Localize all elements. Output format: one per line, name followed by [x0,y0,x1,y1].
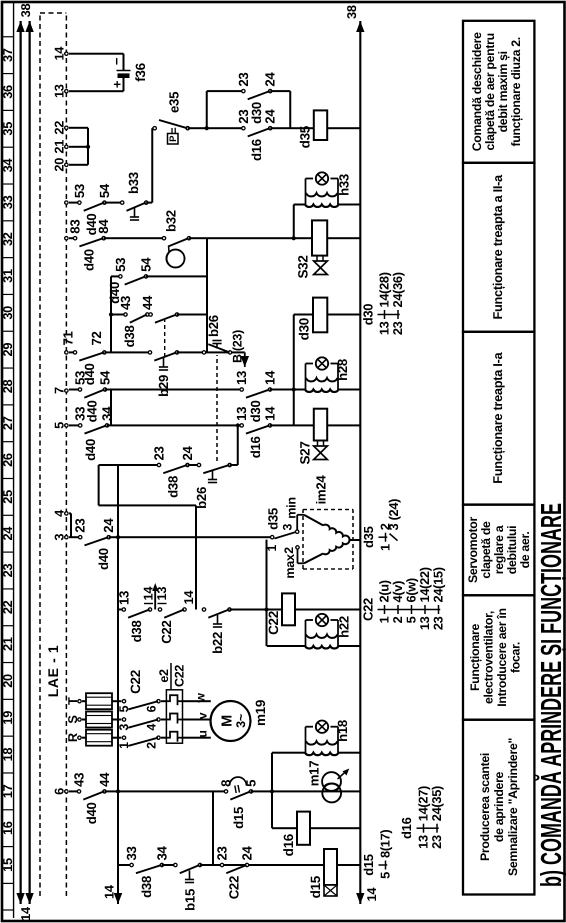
svg-text:43: 43 [72,773,87,787]
svg-text:21: 21 [52,140,67,154]
svg-text:h33: h33 [337,174,352,196]
svg-text:b15: b15 [183,889,198,911]
svg-text:14: 14 [102,884,117,899]
svg-text:14: 14 [263,370,278,385]
svg-text:focar.: focar. [509,642,523,673]
svg-text:d40: d40 [96,548,111,570]
svg-text:14: 14 [52,46,67,61]
svg-text:d30: d30 [361,304,376,326]
svg-text:13: 13 [52,84,67,98]
svg-text:4: 4 [52,509,67,517]
svg-text:13: 13 [154,587,169,601]
svg-text:b26: b26 [194,487,209,509]
svg-text:b29: b29 [156,375,171,397]
svg-text:d35: d35 [266,508,281,530]
svg-text:d40: d40 [82,363,97,385]
svg-text:h18: h18 [335,720,350,742]
svg-text:debitului: debitului [505,526,519,575]
svg-text:B (23): B (23) [231,330,245,363]
svg-text:Producerea scantei: Producerea scantei [478,753,492,861]
svg-text:P: P [168,135,179,142]
svg-text:38: 38 [18,4,33,18]
svg-text:2: 2 [145,742,159,749]
svg-text:d30: d30 [297,318,312,340]
svg-text:im24: im24 [314,475,329,505]
svg-text:d38: d38 [122,326,137,348]
svg-text:3: 3 [52,534,67,541]
svg-text:d40: d40 [84,802,99,824]
svg-text:Comandă deschidere: Comandă deschidere [470,32,484,151]
svg-text:max: max [283,554,297,579]
svg-text:3~: 3~ [234,714,248,728]
svg-text:d16: d16 [281,833,296,856]
svg-text:6: 6 [145,705,159,712]
svg-text:d35: d35 [361,526,376,548]
svg-text:de aer.: de aer. [518,532,532,569]
svg-text:24: 24 [263,109,278,124]
svg-text:h28: h28 [335,359,350,381]
svg-text:44: 44 [97,772,112,787]
svg-text:d40: d40 [107,282,122,304]
svg-text:14: 14 [263,406,278,421]
svg-text:clapetă de aer pentru: clapetă de aer pentru [483,33,497,150]
svg-text:b22: b22 [210,632,225,654]
svg-text:b32: b32 [164,210,179,232]
svg-text:13: 13 [234,371,249,385]
svg-text:24(15): 24(15) [431,567,446,602]
svg-text:2: 2 [282,547,296,554]
svg-text:54: 54 [97,183,112,198]
svg-text:d35: d35 [298,125,313,148]
svg-text:d15: d15 [361,854,376,876]
svg-text:7: 7 [52,387,67,394]
svg-text:5: 5 [117,705,131,712]
svg-text:24: 24 [180,445,195,460]
svg-text:w: w [194,693,208,704]
svg-text:Funcționare treapta a II-a: Funcționare treapta a II-a [490,174,505,320]
svg-text:23: 23 [431,616,446,630]
svg-text:33: 33 [124,846,139,860]
svg-text:24(36): 24(36) [390,272,405,307]
svg-text:23: 23 [429,835,444,849]
svg-text:d15: d15 [231,807,246,829]
svg-text:23: 23 [236,73,251,87]
svg-text:22: 22 [52,121,67,135]
svg-text:14: 14 [181,590,196,605]
svg-text:24: 24 [101,518,116,533]
svg-text:24: 24 [263,72,278,87]
svg-text:14: 14 [364,887,379,902]
svg-text:1: 1 [378,544,393,551]
svg-text:d16: d16 [248,436,263,458]
svg-text:+: + [110,80,125,88]
svg-text:53: 53 [72,184,87,198]
svg-text:C22: C22 [173,665,187,687]
svg-text:C22: C22 [227,876,242,899]
svg-text:83: 83 [68,220,83,234]
svg-text:funcționare diuza 2.: funcționare diuza 2. [509,37,523,146]
svg-text:d40: d40 [81,249,96,271]
svg-text:71: 71 [61,331,76,345]
svg-text:v: v [196,712,210,719]
svg-text:3: 3 [117,724,131,731]
svg-text:38: 38 [344,5,359,19]
svg-text:d40: d40 [85,401,100,423]
svg-text:reglare a: reglare a [492,525,506,574]
svg-text:54: 54 [139,257,154,272]
svg-text:d30: d30 [248,401,263,423]
svg-text:3 (24): 3 (24) [386,499,401,531]
svg-text:electroventilator,: electroventilator, [482,611,496,704]
svg-text:S32: S32 [296,255,311,278]
svg-text:debit maxim și: debit maxim și [496,51,510,132]
svg-text:8(17): 8(17) [378,830,393,858]
svg-text:e2: e2 [157,669,171,683]
svg-text:Funcționare treapta I-a: Funcționare treapta I-a [490,352,505,484]
svg-text:72: 72 [89,331,104,345]
svg-text:C22: C22 [266,611,281,635]
svg-text:Funcționare: Funcționare [468,624,482,692]
svg-text:6: 6 [52,788,67,795]
svg-text:b26: b26 [206,315,221,337]
svg-text:m19: m19 [253,700,268,726]
svg-text:53: 53 [113,258,128,272]
svg-text:S27: S27 [298,441,313,464]
svg-text:d38: d38 [165,476,180,498]
svg-text:Introducere aer în: Introducere aer în [495,608,509,706]
svg-text:d16: d16 [249,139,264,161]
svg-text:54: 54 [98,370,113,385]
svg-text:C22: C22 [159,621,174,644]
svg-text:d30: d30 [249,102,264,124]
svg-text:b) COMANDĂ APRINDERE ȘI FUNCȚI: b) COMANDĂ APRINDERE ȘI FUNCȚIONARE [535,503,566,887]
svg-text:13: 13 [116,591,131,605]
svg-text:C22: C22 [128,670,143,694]
svg-text:24: 24 [240,845,255,860]
svg-text:d38: d38 [129,621,144,643]
svg-text:44: 44 [140,295,155,310]
svg-text:5: 5 [52,422,67,429]
svg-text:d40: d40 [83,439,98,461]
svg-text:20: 20 [52,158,67,172]
svg-text:e35: e35 [167,92,182,113]
svg-text:14: 14 [18,906,33,921]
svg-text:4: 4 [145,724,159,731]
svg-text:m17: m17 [307,761,322,787]
svg-text:d40: d40 [84,214,99,236]
svg-text:34: 34 [154,845,169,860]
svg-text:clapetă de: clapetă de [479,521,493,579]
svg-text:u: u [196,730,210,737]
svg-text:C22: C22 [361,598,376,621]
svg-text:−: − [109,57,124,65]
svg-text:34: 34 [100,406,115,421]
svg-text:5: 5 [378,872,393,879]
svg-text:Servomotor: Servomotor [466,516,480,583]
svg-text:LAE - 1: LAE - 1 [45,645,61,697]
svg-text:23: 23 [215,846,230,860]
svg-text:d16: d16 [399,817,414,839]
svg-text:b33: b33 [126,172,141,194]
svg-text:23: 23 [73,519,88,533]
svg-text:de aprindere: de aprindere [492,771,506,842]
svg-text:24(35): 24(35) [429,786,444,821]
svg-text:1: 1 [117,742,131,749]
svg-text:3: 3 [281,523,295,530]
svg-text:f36: f36 [133,62,148,81]
svg-text:23: 23 [152,446,167,460]
svg-text:h22: h22 [337,616,352,638]
svg-text:23: 23 [390,321,405,335]
svg-text:d38: d38 [139,876,154,898]
svg-text:d15: d15 [308,875,323,898]
svg-text:Semnalizare "Aprindere": Semnalizare "Aprindere" [506,738,520,876]
svg-text:1: 1 [265,545,279,552]
